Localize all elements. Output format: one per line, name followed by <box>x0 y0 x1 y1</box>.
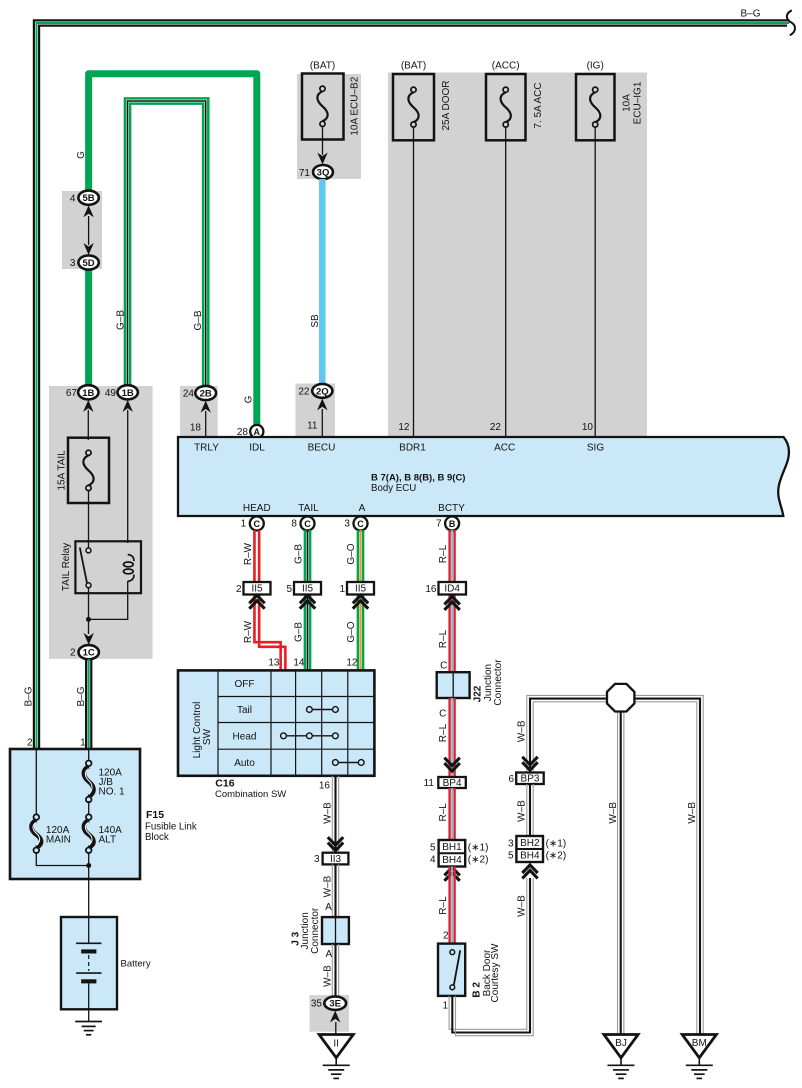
connector 1B (pin 67) <box>66 385 99 399</box>
svg-text:W–B: W–B <box>687 802 698 824</box>
wire dot to 1C <box>88 619 90 634</box>
svg-text:1: 1 <box>80 737 86 748</box>
svg-text:1C: 1C <box>83 648 95 659</box>
node C circle A pin 3 <box>354 517 368 531</box>
splice octagon <box>607 684 634 712</box>
wire R-L J22 to BP4 <box>450 698 455 778</box>
svg-text:R–W: R–W <box>243 620 254 643</box>
svg-text:B–G: B–G <box>24 686 35 706</box>
relay switch contacts <box>86 548 91 553</box>
svg-text:MAIN: MAIN <box>46 835 71 846</box>
svg-text:(∗2): (∗2) <box>468 855 489 866</box>
wire 1B(49) to relay coil <box>127 410 129 543</box>
svg-text:2: 2 <box>70 648 76 659</box>
wire between J/B NO.1 and 140A ALT <box>88 801 90 815</box>
junction connector J3 <box>291 907 349 954</box>
wire G thick green loop (5B leg up, across, down to IDL) <box>89 74 257 427</box>
wire 10A ECU-IG1 fuse to SIG pin <box>594 127 596 437</box>
svg-text:BH4: BH4 <box>520 851 540 862</box>
chevron below II5 pin1 <box>353 595 368 608</box>
svg-text:Auto: Auto <box>234 758 255 769</box>
svg-text:W–B: W–B <box>322 965 333 987</box>
svg-text:14: 14 <box>293 658 305 669</box>
svg-text:TAIL: TAIL <box>298 503 319 514</box>
fusible link 120A J/B NO.1 <box>86 761 92 767</box>
wire B-G 1C to F15 pin 1 <box>86 659 91 750</box>
wire W-B C16 pin16 to II3 <box>332 776 338 853</box>
wire relay coil to junction dot <box>89 592 128 619</box>
wire break squiggle at right end of B-G wire <box>787 10 795 35</box>
svg-text:(IG): (IG) <box>587 61 604 72</box>
chevron down above II3 <box>328 837 343 850</box>
node A circle on ECU top <box>250 425 263 438</box>
svg-text:15A TAIL: 15A TAIL <box>56 450 67 491</box>
chevron below II5 pin2 <box>249 595 264 608</box>
svg-text:ACC: ACC <box>494 443 515 454</box>
svg-text:G–B: G–B <box>193 310 204 330</box>
svg-text:TAIL Relay: TAIL Relay <box>61 543 72 591</box>
svg-text:Battery: Battery <box>121 958 151 969</box>
shaded panel 5B/5D connector block <box>62 191 102 269</box>
svg-text:W–B: W–B <box>322 802 333 824</box>
svg-text:1: 1 <box>339 584 345 595</box>
shaded panel 10A ECU-B2 fuse block <box>297 74 361 179</box>
svg-text:2Q: 2Q <box>316 386 329 397</box>
battery plate long 1 <box>76 942 101 944</box>
svg-text:5D: 5D <box>83 258 95 269</box>
battery dashed link <box>88 955 90 971</box>
svg-text:C: C <box>357 519 364 529</box>
svg-text:22: 22 <box>298 387 310 398</box>
wire R-W HEAD circle to II5 <box>254 530 259 583</box>
svg-text:1B: 1B <box>122 388 134 399</box>
wire F15 to battery <box>88 866 90 918</box>
connector 3E (pin 35) <box>311 997 346 1010</box>
svg-text:10A ECU–B2: 10A ECU–B2 <box>350 76 361 135</box>
svg-text:W–B: W–B <box>608 802 619 824</box>
svg-text:BECU: BECU <box>308 443 336 454</box>
svg-text:(ACC): (ACC) <box>492 61 520 72</box>
svg-text:24: 24 <box>183 389 195 400</box>
contacts Tail row <box>309 709 335 711</box>
svg-text:(∗1): (∗1) <box>546 838 567 849</box>
connector 1B (pin 49) <box>105 385 138 399</box>
svg-text:B–G: B–G <box>76 686 87 706</box>
fusible link 120A MAIN <box>34 814 40 820</box>
svg-text:5: 5 <box>508 851 514 862</box>
arrow dart down into 3Q <box>317 153 327 165</box>
svg-text:A: A <box>254 427 261 437</box>
svg-text:BH4: BH4 <box>442 855 462 866</box>
svg-text:Body ECU: Body ECU <box>371 483 416 494</box>
svg-text:R–L: R–L <box>438 803 449 822</box>
svg-text:Tail: Tail <box>237 705 252 716</box>
svg-text:8: 8 <box>291 519 297 530</box>
svg-text:Head: Head <box>233 732 257 743</box>
connector 5D (pin 3) <box>70 255 99 269</box>
svg-text:R–L: R–L <box>438 896 449 915</box>
shaded panel TAIL relay block <box>49 386 153 659</box>
svg-text:(∗1): (∗1) <box>468 842 489 853</box>
svg-text:3Q: 3Q <box>317 168 330 179</box>
svg-text:BJ: BJ <box>615 1038 627 1049</box>
battery internal wire top <box>88 917 90 943</box>
svg-text:35: 35 <box>311 999 323 1010</box>
svg-text:G–O: G–O <box>346 543 357 564</box>
wire R-L ID4 to J22 <box>450 595 455 674</box>
junction connector J22 <box>437 659 504 706</box>
connector II5 pin 5 <box>286 582 321 595</box>
relay coil <box>128 555 134 562</box>
svg-text:5B: 5B <box>83 193 95 204</box>
connector II5 pin 2 <box>236 582 271 595</box>
wire R-L BCTY circle to ID4 <box>450 530 455 583</box>
wire between 5B and 5D darts <box>88 216 90 245</box>
svg-text:HEAD: HEAD <box>243 503 271 514</box>
svg-text:7. 5A ACC: 7. 5A ACC <box>533 82 544 128</box>
svg-text:IDL: IDL <box>249 443 265 454</box>
svg-text:II3: II3 <box>330 854 342 865</box>
svg-text:BP4: BP4 <box>443 778 462 789</box>
svg-text:W–B: W–B <box>517 720 528 742</box>
fuse 25A DOOR <box>393 61 452 141</box>
svg-text:67: 67 <box>66 388 78 399</box>
wire G green segment 5D to 1B(67) <box>85 267 92 388</box>
svg-text:Block: Block <box>145 832 169 843</box>
svg-text:B–G: B–G <box>740 9 760 20</box>
wire W-B J3 to 3E <box>332 944 338 997</box>
svg-text:16: 16 <box>319 781 331 792</box>
wire G-B TAIL circle to II5 <box>305 530 310 583</box>
svg-text:Connector: Connector <box>493 659 504 706</box>
svg-text:OFF: OFF <box>235 679 255 690</box>
switch B2 Back Door Courtesy SW <box>438 943 501 1002</box>
wire G-B loop (green-black-green) from 1B(49) up, across, down to 2B <box>125 98 208 387</box>
wire G-O II5 to C16 pin 12 <box>358 595 363 672</box>
wire SB (light blue) 3Q to 2Q <box>319 179 326 385</box>
svg-text:A: A <box>359 503 366 514</box>
fuse 15A TAIL <box>56 438 109 503</box>
arrow dart up into 5B <box>83 205 93 217</box>
svg-text:B 7(A), B 8(B), B 9(C): B 7(A), B 8(B), B 9(C) <box>371 472 465 483</box>
shaded panel 2B/TRLY column <box>180 386 218 437</box>
battery plate short thick 2 <box>81 979 96 983</box>
contacts Auto row <box>335 762 361 764</box>
connector II3 pin 3 <box>314 853 348 865</box>
wire 3E to ground triangle II <box>335 1022 337 1035</box>
svg-text:R–W: R–W <box>243 542 254 565</box>
svg-text:(BAT): (BAT) <box>401 61 426 72</box>
svg-text:7: 7 <box>436 519 442 530</box>
Body ECU box B7(A), B8(B), B9(C) <box>178 437 789 516</box>
wire 1B(67) to 15A TAIL fuse <box>87 410 89 440</box>
wire 2Q to BECU pin 11 <box>321 409 323 437</box>
svg-text:2: 2 <box>236 584 242 595</box>
wire W-B octagon splice right branch to BM <box>635 695 703 1034</box>
ground triangle BJ <box>604 1035 638 1058</box>
svg-text:BH2: BH2 <box>520 838 540 849</box>
svg-text:3: 3 <box>344 519 350 530</box>
wire F15 pin1 down to 120A J/B NO.1 <box>88 750 90 762</box>
wire 140A ALT to junction dot <box>88 852 90 866</box>
svg-text:3E: 3E <box>329 999 341 1010</box>
connector stack BH1 (pin 5) / BH4 (pin 4) <box>430 840 488 867</box>
svg-text:71: 71 <box>299 168 311 179</box>
svg-text:13: 13 <box>268 658 280 669</box>
wire 15A TAIL fuse to relay switch <box>88 490 90 549</box>
svg-text:5: 5 <box>286 584 292 595</box>
svg-text:R–L: R–L <box>438 723 449 742</box>
contacts Head row <box>284 735 336 737</box>
svg-text:C: C <box>254 519 261 529</box>
svg-text:BM: BM <box>692 1038 707 1049</box>
svg-text:BCTY: BCTY <box>438 503 465 514</box>
connector 3Q (pin 71) <box>313 165 333 179</box>
svg-text:BDR1: BDR1 <box>399 443 426 454</box>
svg-text:C: C <box>440 660 447 671</box>
svg-text:3: 3 <box>70 258 76 269</box>
svg-text:II: II <box>333 1038 339 1049</box>
ground (battery) <box>75 1022 102 1035</box>
wire relay switch to junction dot <box>88 588 90 620</box>
chevron up below BH4 <box>444 867 459 880</box>
chevron below II5 pin5 <box>300 595 315 608</box>
svg-text:G–B: G–B <box>294 544 305 564</box>
fusible link 140A ALT <box>86 814 92 820</box>
svg-text:G–B: G–B <box>294 622 305 642</box>
svg-text:ECU–IG1: ECU–IG1 <box>632 81 643 124</box>
arrow dart up into 2B <box>201 401 211 413</box>
wire 2B to TRLY pin 18 <box>205 411 207 437</box>
svg-text:SIG: SIG <box>587 443 604 454</box>
svg-text:A: A <box>325 949 332 960</box>
svg-text:R–L: R–L <box>438 544 449 563</box>
ground triangle II <box>319 1035 353 1058</box>
svg-text:10: 10 <box>582 422 594 433</box>
svg-text:Connector: Connector <box>310 907 321 954</box>
svg-text:G: G <box>76 151 87 159</box>
wire fuse ECU-B2 to 3Q <box>322 126 324 155</box>
wire G-B II5 to C16 pin 14 <box>305 595 310 672</box>
svg-text:1: 1 <box>442 1001 448 1012</box>
svg-text:Courtesy SW: Courtesy SW <box>490 943 501 1002</box>
connector 2Q (pin 22) <box>298 384 332 398</box>
connector BP3 pin 6 <box>508 773 543 786</box>
svg-text:G–B: G–B <box>115 310 126 330</box>
wire R-L BH4 to B2 pin 2 <box>450 867 455 945</box>
svg-text:18: 18 <box>190 423 202 434</box>
svg-text:11: 11 <box>307 420 318 431</box>
svg-text:2B: 2B <box>200 389 212 400</box>
svg-text:C: C <box>439 709 446 720</box>
svg-text:11: 11 <box>424 778 435 789</box>
wire W-B II3 to J3 <box>332 864 338 917</box>
connector BP4 pin 11 <box>424 777 466 789</box>
switch C16 Light Control SW (Combination SW) <box>178 670 374 800</box>
svg-text:W–B: W–B <box>322 875 333 897</box>
wire B-G top and left border (black-green-black) <box>34 20 789 751</box>
svg-text:6: 6 <box>508 774 514 785</box>
wire R-L BP4 to BH1 <box>450 788 455 841</box>
svg-text:(BAT): (BAT) <box>310 61 335 72</box>
svg-text:SB: SB <box>310 314 321 328</box>
junction dot in F15 <box>86 863 91 868</box>
svg-text:G–O: G–O <box>346 621 357 642</box>
svg-text:II5: II5 <box>251 584 263 595</box>
junction dot below relay <box>86 617 91 622</box>
svg-text:SW: SW <box>202 728 213 745</box>
wire W-B BP3 to BH2 <box>527 784 533 837</box>
wire W-B B2 pin1 down, right, up to BH2/BH4 chevron <box>449 878 533 1036</box>
fuse 10A ECU-IG1 <box>576 61 643 141</box>
wire 25A DOOR fuse to BDR1 <box>413 127 415 437</box>
svg-text:W–B: W–B <box>517 895 528 917</box>
svg-text:22: 22 <box>490 422 502 433</box>
svg-text:NO. 1: NO. 1 <box>99 786 126 797</box>
svg-text:Combination SW: Combination SW <box>215 789 286 800</box>
svg-text:10A: 10A <box>621 94 632 112</box>
svg-text:2: 2 <box>27 737 33 748</box>
ground (II) <box>335 1058 337 1066</box>
connector 1C (pin 2) <box>70 645 99 659</box>
svg-text:12: 12 <box>398 422 410 433</box>
svg-text:3: 3 <box>314 854 320 865</box>
connector stack BH2 (pin 3) / BH4 (pin 5) <box>508 836 566 862</box>
connector 5B (pin 4) with darts to 5D <box>70 191 99 205</box>
node C circle TAIL pin 8 <box>301 517 315 531</box>
svg-text:II5: II5 <box>302 584 314 595</box>
arrow dart up into 2Q <box>317 399 327 411</box>
wire W-B octagon splice left branch to BP3 <box>527 695 608 773</box>
chevron up below BH4 (right stack) <box>522 865 537 878</box>
svg-text:J22: J22 <box>472 685 483 702</box>
svg-text:1B: 1B <box>82 388 94 399</box>
svg-text:A: A <box>325 902 332 913</box>
arrow dart up into 1B(67) <box>83 400 93 412</box>
svg-text:1: 1 <box>241 519 247 530</box>
chevron down above BP4 <box>444 758 459 771</box>
wire F15 pin2 down to 120A MAIN <box>35 750 37 815</box>
wire G-O A circle to II5 <box>358 530 363 583</box>
node B circle BCTY pin 7 <box>445 517 459 531</box>
shaded panel 3E connector block <box>310 995 350 1032</box>
battery plate long 2 <box>76 972 101 974</box>
chevron down above BP3 <box>522 757 537 770</box>
svg-text:R–L: R–L <box>438 629 449 648</box>
fusible link block F15 <box>10 749 197 879</box>
battery plate short thick 1 <box>81 949 96 953</box>
svg-text:BP3: BP3 <box>521 774 540 785</box>
svg-text:(∗2): (∗2) <box>546 851 567 862</box>
svg-text:G: G <box>243 395 254 403</box>
svg-text:B: B <box>449 519 456 529</box>
svg-text:16: 16 <box>425 584 437 595</box>
svg-text:W–B: W–B <box>517 800 528 822</box>
shaded panel 2Q/BECU column <box>296 384 336 437</box>
svg-text:TRLY: TRLY <box>194 443 219 454</box>
connector ID4 pin 16 <box>425 582 466 595</box>
svg-text:3: 3 <box>508 838 514 849</box>
svg-text:F15: F15 <box>146 809 164 821</box>
shaded panel fuse/junction block (25A DOOR / 7.5A ACC / 10A ECU-IG1) <box>388 73 647 437</box>
svg-text:4: 4 <box>430 855 436 866</box>
fuse 7.5A ACC <box>486 61 544 141</box>
svg-text:2: 2 <box>443 930 449 941</box>
battery <box>61 917 151 1009</box>
wire W-B octagon splice bottom branch to BJ <box>618 710 624 1035</box>
svg-text:ALT: ALT <box>99 835 117 846</box>
ground (BM) <box>698 1058 700 1066</box>
connector 2B (pin 24) <box>183 386 216 400</box>
arrow dart down into 1C <box>84 633 94 645</box>
relay TAIL Relay <box>61 541 141 593</box>
wire R-W II5 to C16 pin 13 (jog) <box>254 595 285 672</box>
svg-text:C: C <box>304 519 311 529</box>
svg-text:Fusible Link: Fusible Link <box>145 821 197 832</box>
chevron below ID4 <box>444 597 459 610</box>
node C circle HEAD pin 1 <box>250 517 264 531</box>
svg-text:BH1: BH1 <box>442 842 462 853</box>
svg-text:12: 12 <box>346 658 358 669</box>
svg-text:II5: II5 <box>355 584 367 595</box>
arrow dart down into 5D <box>83 243 93 255</box>
wire 120A MAIN to junction dot <box>36 852 88 866</box>
svg-text:ID4: ID4 <box>444 584 460 595</box>
battery internal wire bottom <box>88 983 90 1009</box>
svg-text:25A DOOR: 25A DOOR <box>441 80 452 130</box>
arrow dart up into 3E <box>330 1011 340 1023</box>
wire battery to ground <box>88 1009 90 1022</box>
ground (BJ) <box>620 1058 622 1066</box>
svg-text:4: 4 <box>70 193 76 204</box>
wire 7.5A ACC fuse to ACC pin <box>505 127 507 437</box>
svg-text:5: 5 <box>430 842 436 853</box>
svg-text:C16: C16 <box>215 777 234 789</box>
arrow dart up into 1B(49) <box>123 400 133 412</box>
svg-text:49: 49 <box>105 388 117 399</box>
connector II5 pin 1 <box>339 582 374 595</box>
fuse 10A ECU-B2 <box>302 61 361 140</box>
ground triangle BM <box>682 1035 716 1058</box>
